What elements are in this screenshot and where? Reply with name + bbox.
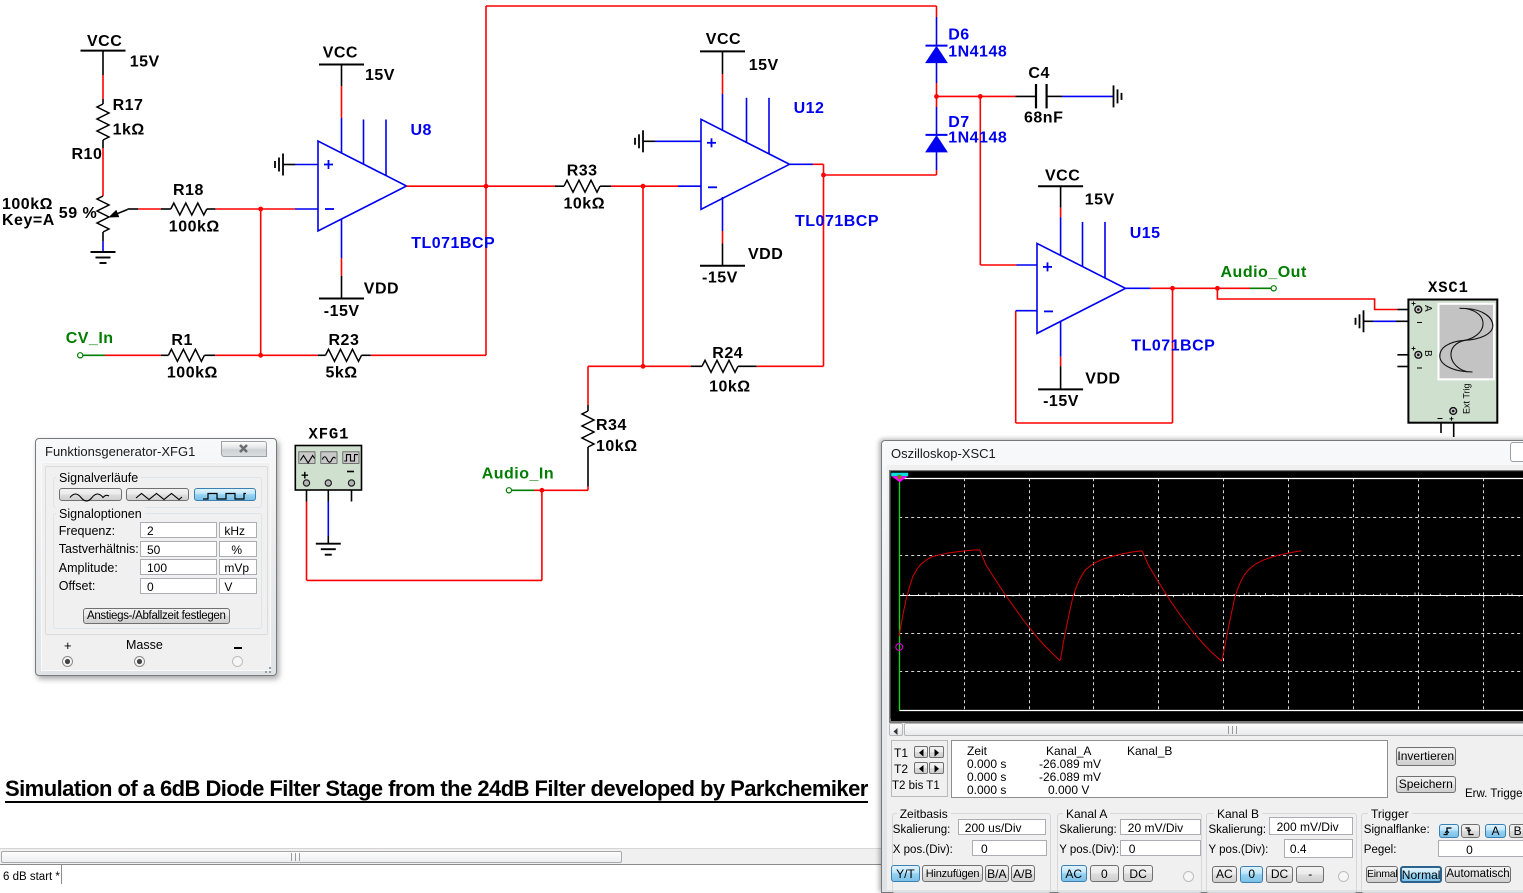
svg-text:10kΩ: 10kΩ <box>596 438 638 455</box>
svg-text:R33: R33 <box>567 163 598 180</box>
svg-text:15V: 15V <box>749 57 779 74</box>
svg-text:5kΩ: 5kΩ <box>326 364 358 381</box>
svg-text:A: A <box>1422 305 1433 312</box>
svg-text:15V: 15V <box>1085 191 1115 208</box>
svg-text:68nF: 68nF <box>1024 109 1063 126</box>
svg-text:B: B <box>1422 350 1433 357</box>
svg-text:Key=A: Key=A <box>2 212 55 229</box>
svg-text:10kΩ: 10kΩ <box>709 378 751 395</box>
svg-text:R24: R24 <box>712 345 743 362</box>
svg-text:-15V: -15V <box>324 303 360 320</box>
svg-text:100kΩ: 100kΩ <box>169 219 220 236</box>
svg-text:100kΩ: 100kΩ <box>2 196 53 213</box>
svg-text:VCC: VCC <box>1045 168 1080 185</box>
svg-text:VCC: VCC <box>323 45 358 62</box>
svg-text:10kΩ: 10kΩ <box>564 196 606 213</box>
svg-text:VDD: VDD <box>364 281 399 298</box>
svg-text:15V: 15V <box>130 54 160 71</box>
svg-text:TL071BCP: TL071BCP <box>1131 338 1215 355</box>
svg-text:U15: U15 <box>1130 225 1161 242</box>
svg-text:U12: U12 <box>794 100 825 117</box>
svg-text:VDD: VDD <box>1085 371 1120 388</box>
svg-text:R34: R34 <box>596 417 627 434</box>
svg-text:CV_In: CV_In <box>66 330 114 347</box>
svg-text:Audio_Out: Audio_Out <box>1221 264 1307 281</box>
svg-text:XSC1: XSC1 <box>1428 279 1469 297</box>
svg-text:C4: C4 <box>1028 65 1049 82</box>
svg-text:VDD: VDD <box>748 246 783 263</box>
svg-text:XFG1: XFG1 <box>309 426 350 444</box>
svg-text:VCC: VCC <box>706 31 741 48</box>
svg-text:-15V: -15V <box>1043 393 1079 410</box>
svg-text:R10: R10 <box>72 146 103 163</box>
svg-text:VCC: VCC <box>87 33 122 50</box>
svg-text:15V: 15V <box>365 67 395 84</box>
svg-text:D6: D6 <box>948 27 969 44</box>
svg-text:Ext Trig: Ext Trig <box>1462 383 1472 414</box>
svg-text:59 %: 59 % <box>59 205 97 222</box>
svg-text:D7: D7 <box>948 114 969 131</box>
svg-text:1N4148: 1N4148 <box>948 44 1007 61</box>
svg-text:Audio_In: Audio_In <box>482 466 554 483</box>
svg-text:U8: U8 <box>411 122 432 139</box>
svg-text:R17: R17 <box>113 97 144 114</box>
svg-text:R1: R1 <box>171 332 192 349</box>
svg-text:TL071BCP: TL071BCP <box>795 213 879 230</box>
svg-text:R18: R18 <box>173 182 204 199</box>
svg-text:1kΩ: 1kΩ <box>113 122 145 139</box>
svg-text:100kΩ: 100kΩ <box>167 364 218 381</box>
svg-text:R23: R23 <box>329 332 360 349</box>
svg-text:-15V: -15V <box>702 270 738 287</box>
svg-text:TL071BCP: TL071BCP <box>411 235 495 252</box>
svg-text:1N4148: 1N4148 <box>948 130 1007 147</box>
